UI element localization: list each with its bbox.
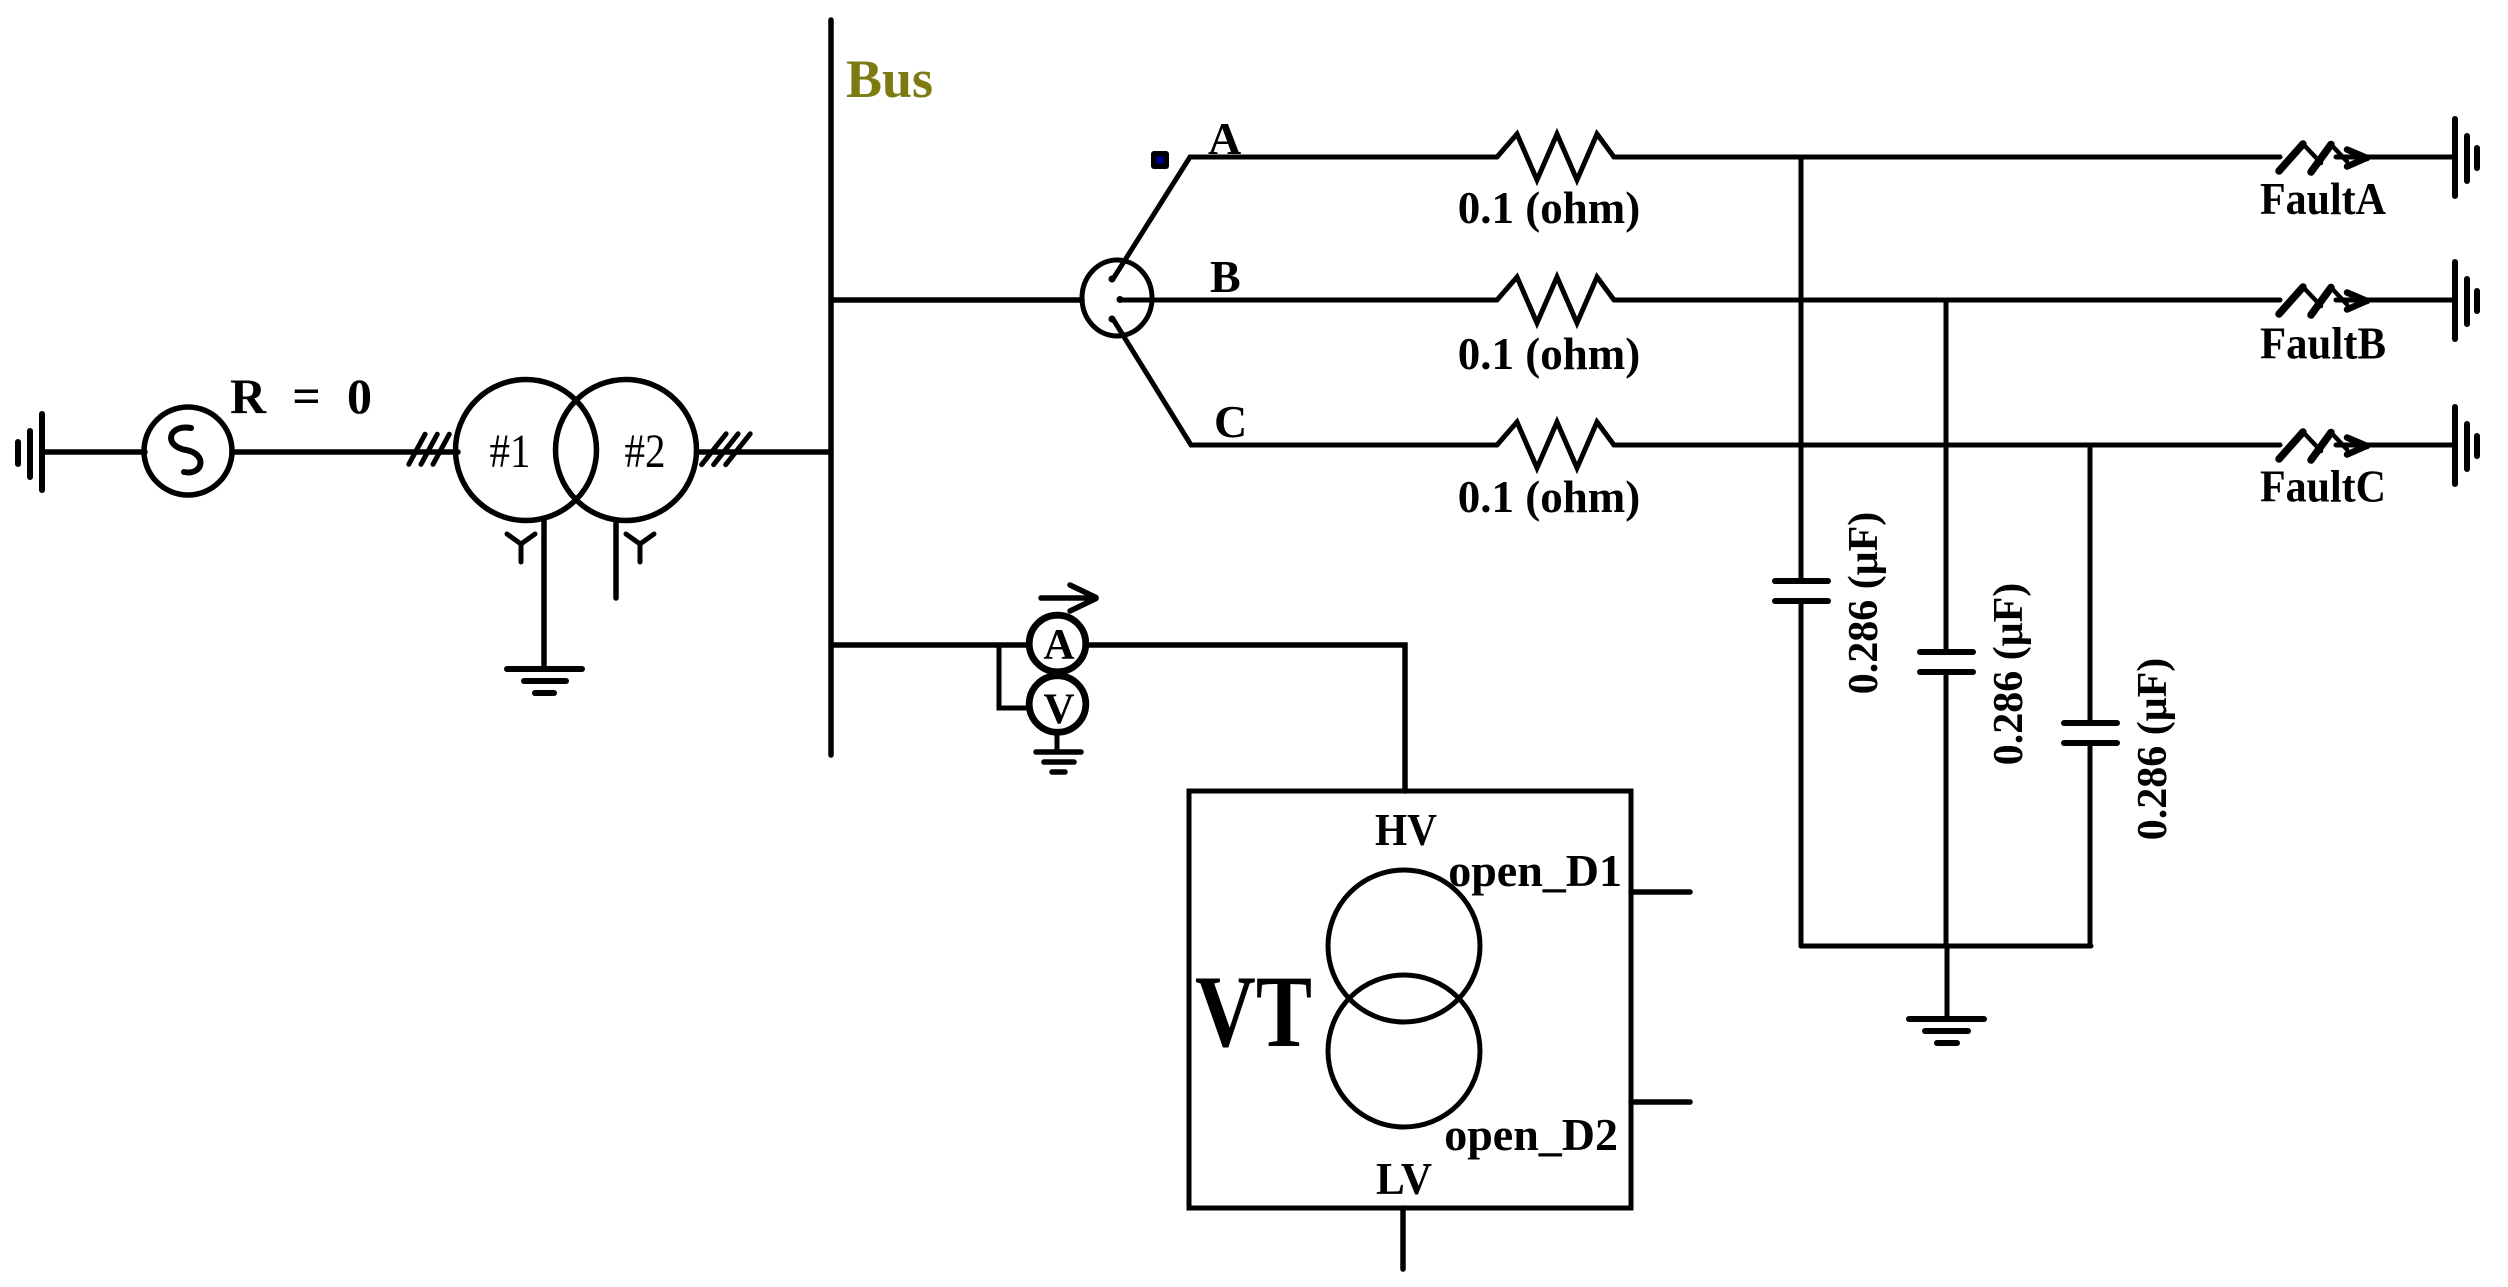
current direction arrow — [1041, 585, 1096, 611]
svg-text:FaultB: FaultB — [2260, 319, 2386, 369]
three-phase slashes (right of transformer) — [702, 434, 751, 465]
svg-text:LV: LV — [1376, 1153, 1432, 1204]
wire resistor RA to fault A — [1614, 155, 2280, 160]
wire resistor RB to fault B — [1614, 298, 2280, 303]
wire fault A to ground — [2336, 155, 2453, 160]
VT box — [1189, 791, 1631, 1208]
wire fault C to ground — [2336, 443, 2453, 448]
wire open_D2 stub — [1631, 1099, 1690, 1105]
svg-text:0.1 (ohm): 0.1 (ohm) — [1458, 183, 1640, 233]
ground G4 (fault A, rotated) — [2455, 119, 2477, 196]
VT transformer winding lower — [1328, 975, 1480, 1127]
svg-text:Bus: Bus — [846, 49, 933, 109]
three-phase slashes (left of transformer) — [409, 434, 450, 464]
wire ammeter to VT — [1085, 645, 1405, 791]
svg-text:HV: HV — [1375, 804, 1437, 855]
svg-text:A: A — [1043, 622, 1074, 669]
wire capacitor common rail — [1801, 944, 2091, 949]
svg-text:VT: VT — [1195, 955, 1312, 1069]
voltmeter V — [1029, 676, 1086, 733]
wire source to transformer — [232, 449, 458, 455]
wire open_D1 stub — [1631, 889, 1690, 895]
svg-text:0.286 (μF): 0.286 (μF) — [2130, 658, 2176, 840]
wire breaker to phase B — [1120, 298, 1497, 303]
wire tap to voltmeter — [999, 645, 1029, 708]
resistor RA 0.1 ohm — [1497, 134, 1614, 180]
svg-text:FaultC: FaultC — [2260, 462, 2386, 512]
svg-text:V: V — [1043, 686, 1074, 733]
fault symbol FaultC — [2279, 432, 2367, 460]
capacitor CB 0.286 uF — [1920, 300, 1973, 946]
wire winding #2 neutral stub — [613, 520, 619, 598]
wire fault B to ground — [2336, 298, 2453, 303]
fault symbol FaultA — [2279, 144, 2367, 172]
ground G7 (voltmeter) — [1036, 752, 1081, 772]
capacitor CA 0.286 uF — [1775, 157, 1828, 946]
svg-text:0.286 (μF): 0.286 (μF) — [1841, 512, 1887, 694]
ground G3 (capacitor bank) — [1909, 1019, 1984, 1043]
wire resistor RC to fault C — [1614, 443, 2280, 448]
svg-text:A: A — [1208, 113, 1241, 164]
wire bus to ammeter — [831, 642, 1029, 648]
wire transformer to bus — [697, 449, 831, 455]
breaker / phase splitter — [1082, 260, 1152, 336]
ground G2 (transformer neutral) — [507, 669, 582, 693]
svg-text:open_D1: open_D1 — [1448, 845, 1622, 896]
wire winding #1 neutral to ground — [541, 519, 547, 667]
svg-text:FaultA: FaultA — [2260, 174, 2386, 224]
capacitor CC 0.286 uF — [2064, 445, 2117, 946]
transformer T1 winding #2 — [556, 380, 697, 521]
wire ground to source — [42, 449, 145, 455]
resistor RB 0.1 ohm — [1497, 277, 1614, 323]
resistor RC 0.1 ohm — [1497, 422, 1614, 468]
ground G6 (fault C, rotated) — [2455, 407, 2477, 484]
transformer T1 winding #1 — [456, 380, 597, 521]
wire voltmeter to ground — [1055, 733, 1060, 752]
svg-text:#2: #2 — [625, 425, 666, 478]
wire LV stub — [1400, 1208, 1406, 1269]
ammeter A — [1029, 615, 1086, 672]
wire breaker to phase A — [1113, 157, 1497, 279]
wire rail to ground — [1945, 946, 1950, 1019]
svg-text:B: B — [1210, 251, 1241, 302]
wire breaker to phase C — [1113, 319, 1497, 445]
ac source ES — [144, 407, 232, 495]
bus (vertical busbar) — [828, 20, 834, 755]
fault symbol FaultB — [2279, 287, 2367, 315]
wire bus to breaker — [831, 297, 1082, 303]
ground G1 (source ground, rotated) — [18, 414, 42, 490]
svg-text:0.1 (ohm): 0.1 (ohm) — [1458, 472, 1640, 522]
ground G5 (fault B, rotated) — [2455, 262, 2477, 339]
timed-fault control square — [1151, 151, 1169, 169]
wye symbol of winding #2 — [626, 534, 654, 562]
svg-text:R = 0: R = 0 — [230, 368, 372, 424]
svg-text:C: C — [1214, 396, 1247, 447]
VT transformer winding upper — [1328, 870, 1480, 1022]
svg-text:#1: #1 — [490, 425, 531, 478]
svg-text:0.286 (μF): 0.286 (μF) — [1986, 583, 2032, 765]
wye symbol of winding #1 — [507, 534, 535, 562]
svg-text:open_D2: open_D2 — [1444, 1109, 1618, 1160]
svg-text:0.1 (ohm): 0.1 (ohm) — [1458, 329, 1640, 379]
